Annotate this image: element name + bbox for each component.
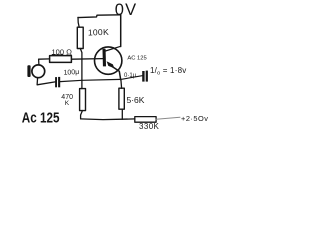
svg-text:100K: 100K bbox=[88, 27, 109, 38]
svg-text:K: K bbox=[65, 100, 70, 107]
capacitor C1 100u bbox=[55, 77, 57, 87]
resistor R2 100 ohm bbox=[50, 56, 72, 63]
wire mic top to R2 bbox=[39, 59, 50, 65]
svg-text:Ac 125: Ac 125 bbox=[22, 109, 60, 126]
wire 100K top lead bbox=[78, 17, 79, 27]
svg-text:0V: 0V bbox=[115, 1, 138, 19]
wire bias vertical (100K bottom to 470K top) bbox=[80, 49, 82, 89]
svg-text:0·1μ: 0·1μ bbox=[124, 73, 137, 79]
wire top rail bbox=[78, 15, 121, 18]
svg-text:5·6K: 5·6K bbox=[127, 95, 145, 105]
wire 330K to supply bbox=[156, 117, 180, 119]
wire bottom rail bbox=[81, 118, 135, 121]
wire collector node to output cap bbox=[121, 76, 142, 80]
svg-text:330K: 330K bbox=[139, 122, 160, 131]
resistor R5 330K bbox=[135, 117, 156, 123]
resistor R4 5.6K bbox=[119, 88, 124, 109]
wire 0V drop to transistor collector bbox=[120, 15, 122, 47]
capacitor C2 0.1u bbox=[142, 71, 144, 82]
resistor R1 100K bbox=[77, 27, 83, 48]
wire base bbox=[72, 58, 103, 61]
label AC125 title bbox=[22, 109, 60, 126]
wire mic bottom to C1 bbox=[37, 78, 55, 85]
svg-text:AC 125: AC 125 bbox=[127, 56, 146, 62]
svg-text:+2·5Ov: +2·5Ov bbox=[181, 114, 208, 123]
transistor Q1 AC125 bbox=[95, 47, 122, 74]
wire emitter node rail (C1 to transistor bottom node) bbox=[60, 79, 121, 81]
svg-text:100μ: 100μ bbox=[63, 69, 79, 77]
microphone MIC1 bbox=[27, 65, 30, 77]
wire 5.6K bottom lead bbox=[121, 109, 123, 119]
wire 470K bottom lead bbox=[81, 111, 83, 119]
wire 5.6K top lead bbox=[120, 80, 123, 89]
resistor R3 470K bbox=[80, 89, 86, 111]
